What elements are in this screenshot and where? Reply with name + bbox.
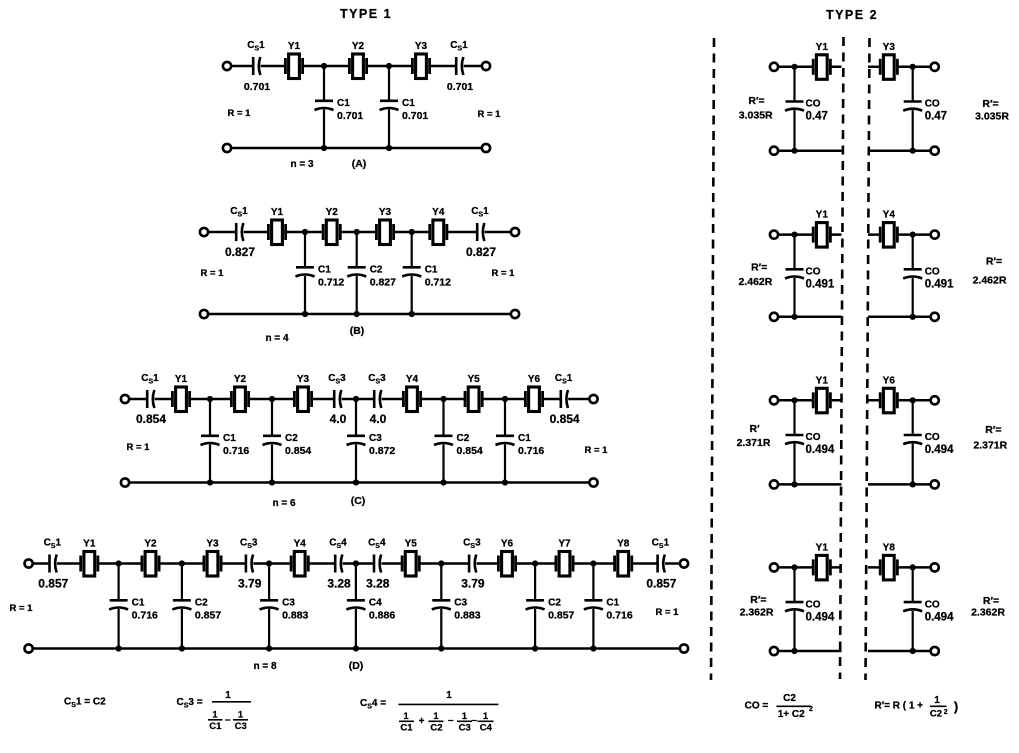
- capacitor CS1 series (B): [230, 206, 248, 241]
- capacitor C1 shunt at node 5 (C): [496, 436, 515, 445]
- svg-text:CO: CO: [806, 99, 821, 110]
- svg-text:0.827: 0.827: [370, 277, 396, 289]
- svg-text:1: 1: [403, 711, 409, 722]
- junction top right half (type2 row2): [910, 232, 916, 238]
- wire shunt branch upper node 3 (B): [411, 232, 413, 267]
- svg-text:+: +: [419, 716, 425, 727]
- wire bottom rail right half (type2 row1): [868, 149, 931, 152]
- wire top left half (type2 row1): [778, 66, 841, 69]
- capacitor CS3 series (D): [240, 538, 258, 573]
- svg-text:1: 1: [433, 711, 439, 722]
- svg-text:Y2: Y2: [234, 374, 247, 385]
- svg-text:1: 1: [225, 690, 231, 701]
- junction bottom left half (type2 row4): [791, 648, 797, 654]
- wire bottom rail (D): [33, 647, 680, 650]
- input terminal top left (A): [223, 62, 231, 70]
- svg-text:Y3: Y3: [379, 207, 392, 218]
- svg-text:2.362R: 2.362R: [971, 607, 1005, 619]
- input terminal top left (C): [121, 395, 129, 403]
- svg-text:0.857: 0.857: [646, 577, 676, 591]
- svg-text:3.035R: 3.035R: [739, 110, 773, 122]
- svg-text:CS4: CS4: [329, 538, 347, 551]
- wire bottom rail left half (type2 row3): [778, 483, 841, 486]
- svg-text:Y8: Y8: [617, 539, 630, 550]
- svg-text:Y2: Y2: [352, 41, 365, 52]
- svg-text:C2: C2: [370, 265, 383, 276]
- junction bottom left half (type2 row3): [791, 481, 797, 487]
- svg-text:C3: C3: [369, 433, 382, 444]
- svg-text:Y3: Y3: [297, 374, 310, 385]
- svg-text:R′=: R′=: [982, 98, 998, 110]
- svg-text:R = 1: R = 1: [127, 442, 151, 453]
- crystal Y1 left half (type2 row4): [813, 542, 830, 580]
- capacitor C0 shunt left half (type2 row1): [785, 102, 804, 111]
- node 1 junction bottom (C): [207, 479, 213, 485]
- svg-text:C4: C4: [480, 722, 493, 733]
- svg-text:CO: CO: [925, 99, 940, 110]
- wire top right half (type2 row4): [868, 566, 931, 569]
- crystal Y6 right half (type2 row3): [880, 375, 897, 413]
- junction bottom right half (type2 row4): [910, 648, 916, 654]
- capacitor C3 shunt at node 5 (D): [432, 600, 451, 609]
- svg-text:C1: C1: [223, 433, 236, 444]
- wire bottom rail (C): [129, 481, 589, 484]
- svg-text:Y1: Y1: [288, 41, 301, 52]
- svg-text:0.872: 0.872: [369, 445, 395, 457]
- svg-text:C2: C2: [430, 722, 442, 733]
- wire shunt branch upper node 6 (D): [534, 564, 536, 601]
- terminal bottom left (type2 row2): [770, 313, 778, 321]
- svg-text:C3: C3: [235, 721, 247, 732]
- svg-text:R = 1: R = 1: [585, 445, 609, 456]
- svg-text:4.0: 4.0: [330, 412, 347, 426]
- svg-text:Y5: Y5: [467, 374, 480, 385]
- node 5 junction top (D): [438, 560, 444, 566]
- dashed divider line left: [711, 38, 714, 680]
- crystal Y2 (C): [231, 374, 248, 412]
- wire shunt branch lower node 7 (D): [592, 609, 594, 649]
- svg-text:Y2: Y2: [144, 539, 157, 550]
- svg-text:Y4: Y4: [406, 374, 419, 385]
- crystal Y3 (B): [376, 207, 393, 245]
- wire shunt upper right half (type2 row1): [912, 67, 914, 102]
- terminal top left (type2 row2): [770, 231, 778, 239]
- wire shunt upper left half (type2 row1): [793, 67, 795, 102]
- svg-text:CO: CO: [925, 432, 940, 443]
- node 6 junction bottom (D): [532, 645, 538, 651]
- formula CS4 = 1/(1/C1 + 1/C2 - 1/C3 - 1/C4): [360, 690, 498, 733]
- wire shunt lower left half (type2 row3): [793, 444, 795, 485]
- svg-text:3.28: 3.28: [327, 577, 351, 591]
- wire top rail (A): [231, 65, 482, 68]
- junction bottom right half (type2 row2): [910, 314, 916, 320]
- wire top left half (type2 row4): [778, 566, 841, 569]
- svg-text:CO: CO: [925, 267, 940, 278]
- svg-text:Y3: Y3: [206, 539, 219, 550]
- svg-text:Y4: Y4: [432, 207, 445, 218]
- node 1 junction top (B): [302, 229, 308, 235]
- svg-text:R = 1: R = 1: [478, 109, 502, 120]
- output terminal bottom right (B): [511, 310, 519, 318]
- svg-text:Y1: Y1: [83, 539, 96, 550]
- svg-text:CO: CO: [925, 599, 940, 610]
- crystal Y1 left half (type2 row3): [813, 375, 830, 413]
- svg-text:C1: C1: [606, 598, 619, 609]
- wire bottom rail right half (type2 row3): [868, 483, 931, 486]
- junction bottom left half (type2 row1): [791, 148, 797, 154]
- node 3 junction top (B): [409, 229, 415, 235]
- svg-text:0.886: 0.886: [369, 610, 395, 622]
- svg-text:Y6: Y6: [501, 539, 514, 550]
- svg-text:0.854: 0.854: [136, 412, 166, 426]
- output terminal top right (A): [482, 62, 490, 70]
- crystal Y7 (D): [556, 539, 573, 577]
- capacitor C2 shunt at node 2 (B): [347, 267, 366, 276]
- capacitor CS1 series (D): [652, 538, 670, 573]
- svg-text:C1: C1: [132, 598, 145, 609]
- svg-text:(D): (D): [349, 660, 364, 672]
- junction top right half (type2 row1): [910, 64, 916, 70]
- capacitor CS1 series (B): [471, 206, 489, 241]
- svg-text:CS4 =: CS4 =: [360, 698, 386, 711]
- wire bottom rail left half (type2 row4): [778, 650, 841, 653]
- svg-text:CS3 =: CS3 =: [177, 697, 203, 710]
- wire shunt upper left half (type2 row3): [793, 400, 795, 435]
- capacitor C0 shunt right half (type2 row4): [903, 602, 922, 611]
- svg-text:CS3: CS3: [368, 373, 386, 386]
- node 2 junction bottom (D): [179, 645, 185, 651]
- svg-text:0.827: 0.827: [225, 245, 255, 259]
- node 1 junction bottom (D): [116, 645, 122, 651]
- svg-text:Y5: Y5: [405, 539, 418, 550]
- svg-text:(A): (A): [352, 158, 367, 170]
- svg-text:C2: C2: [285, 433, 298, 444]
- svg-text:CS1: CS1: [141, 373, 159, 386]
- wire shunt branch upper node 2 (C): [271, 399, 273, 436]
- wire shunt branch lower node 3 (B): [411, 276, 413, 314]
- svg-text:TYPE 1: TYPE 1: [340, 7, 392, 21]
- capacitor CS3 series (D): [463, 538, 481, 573]
- crystal Y3 (C): [294, 374, 311, 412]
- node 3 junction bottom (D): [266, 645, 272, 651]
- svg-text:C2: C2: [195, 598, 208, 609]
- wire bottom rail right half (type2 row4): [868, 650, 931, 653]
- svg-text:2.462R: 2.462R: [738, 276, 772, 288]
- dashed divider line middle: [840, 37, 844, 679]
- capacitor C0 shunt right half (type2 row2): [903, 269, 922, 278]
- svg-text:2.371R: 2.371R: [737, 437, 771, 449]
- svg-text:3.79: 3.79: [461, 577, 485, 591]
- formula R' = R(1 + 1/C2^2): [875, 695, 959, 720]
- svg-text:C4: C4: [369, 598, 382, 609]
- capacitor C0 shunt left half (type2 row3): [785, 435, 804, 444]
- input terminal bottom left (D): [25, 644, 33, 652]
- svg-text:0.47: 0.47: [925, 111, 947, 123]
- svg-text:R′=: R′=: [751, 262, 767, 274]
- svg-text:0.716: 0.716: [518, 445, 544, 457]
- svg-text:C2: C2: [783, 693, 796, 704]
- wire bottom rail (A): [231, 147, 482, 150]
- capacitor C2 shunt at node 2 (D): [172, 600, 191, 609]
- node 2 junction top (B): [354, 229, 360, 235]
- crystal Y2 (D): [142, 539, 159, 577]
- crystal Y3 right half (type2 row1): [880, 42, 897, 80]
- capacitor C1 shunt at node 3 (B): [402, 267, 421, 276]
- svg-text:C1: C1: [402, 98, 415, 109]
- wire top rail (D): [33, 562, 680, 565]
- svg-text:R′= R ( 1 +: R′= R ( 1 +: [875, 701, 924, 712]
- wire shunt lower left half (type2 row1): [793, 110, 795, 151]
- svg-text:CS3: CS3: [463, 538, 481, 551]
- crystal Y1 (A): [285, 41, 302, 79]
- svg-text:CS1: CS1: [247, 40, 265, 53]
- svg-text:): ): [954, 699, 958, 714]
- svg-text:R′=: R′=: [986, 256, 1002, 268]
- wire shunt branch lower node 1 (B): [304, 276, 306, 314]
- svg-text:0.701: 0.701: [447, 81, 473, 93]
- output terminal bottom right (A): [482, 144, 490, 152]
- junction top left half (type2 row4): [791, 564, 797, 570]
- svg-text:R′=: R′=: [983, 595, 999, 607]
- svg-text:CS3: CS3: [240, 538, 258, 551]
- wire shunt lower right half (type2 row1): [912, 110, 914, 151]
- svg-text:0.854: 0.854: [550, 412, 580, 426]
- svg-text:R′: R′: [750, 423, 761, 435]
- svg-text:CO =: CO =: [745, 701, 769, 712]
- capacitor C2 shunt at node 2 (C): [263, 436, 282, 445]
- wire shunt branch upper node 2 (B): [356, 232, 358, 267]
- svg-text:CS1: CS1: [471, 206, 489, 219]
- svg-text:C1: C1: [425, 265, 438, 276]
- svg-text:CS1: CS1: [652, 538, 670, 551]
- wire shunt branch lower node 3 (D): [268, 609, 270, 649]
- wire shunt branch lower node 4 (C): [442, 444, 444, 482]
- terminal top left (type2 row3): [770, 396, 778, 404]
- input terminal bottom left (B): [200, 310, 208, 318]
- terminal bottom left (type2 row1): [770, 147, 778, 155]
- svg-text:1+ C2: 1+ C2: [778, 709, 805, 720]
- crystal Y2 (A): [349, 41, 366, 79]
- svg-text:Y1: Y1: [816, 375, 829, 386]
- node 2 junction top (D): [179, 560, 185, 566]
- svg-text:0.716: 0.716: [606, 610, 632, 622]
- node 3 junction top (C): [353, 396, 359, 402]
- svg-text:Y1: Y1: [816, 42, 829, 53]
- wire shunt lower left half (type2 row4): [793, 611, 795, 651]
- svg-text:0.494: 0.494: [806, 611, 835, 623]
- crystal Y3 (D): [204, 539, 221, 577]
- svg-text:CS4: CS4: [368, 538, 386, 551]
- node 3 junction bottom (B): [409, 311, 415, 317]
- output terminal bottom right (C): [589, 478, 597, 486]
- capacitor CS4 series (D): [329, 538, 347, 573]
- wire shunt branch lower node 4 (D): [355, 609, 357, 649]
- svg-text:Y4: Y4: [883, 210, 896, 221]
- svg-text:C2: C2: [457, 433, 470, 444]
- crystal Y4 (B): [430, 207, 447, 245]
- crystal Y4 (C): [403, 374, 420, 412]
- svg-text:Y8: Y8: [883, 542, 896, 553]
- wire shunt branch lower node 6 (D): [534, 609, 536, 649]
- crystal Y6 (C): [525, 374, 542, 412]
- svg-text:CS1: CS1: [555, 373, 573, 386]
- input terminal top left (D): [25, 559, 33, 567]
- crystal Y5 (C): [465, 374, 482, 412]
- wire shunt lower right half (type2 row2): [912, 278, 914, 317]
- svg-text:Y3: Y3: [415, 41, 428, 52]
- crystal Y8 right half (type2 row4): [880, 542, 897, 580]
- capacitor C1 shunt at node 1 (B): [296, 267, 315, 276]
- output terminal top right (C): [589, 395, 597, 403]
- svg-text:0.857: 0.857: [548, 610, 574, 622]
- node 1 junction top (D): [116, 560, 122, 566]
- formula CS3 = 1/(1/C1 - 1/C3): [177, 690, 252, 732]
- wire shunt branch lower node 5 (D): [440, 609, 442, 649]
- svg-text:CS1: CS1: [230, 206, 248, 219]
- capacitor C0 shunt left half (type2 row2): [785, 269, 804, 278]
- wire shunt upper right half (type2 row4): [912, 567, 914, 602]
- wire shunt upper left half (type2 row2): [793, 235, 795, 270]
- crystal Y1 left half (type2 row2): [813, 210, 830, 248]
- svg-text:1: 1: [446, 690, 452, 701]
- capacitor C2 shunt at node 6 (D): [526, 600, 545, 609]
- svg-text:(C): (C): [351, 495, 366, 507]
- svg-text:1: 1: [238, 710, 244, 721]
- terminal bottom left (type2 row3): [770, 480, 778, 488]
- node 1 junction top (C): [207, 396, 213, 402]
- crystal Y6 (D): [498, 539, 515, 577]
- wire shunt branch lower node 1 (C): [209, 444, 211, 482]
- svg-text:0.827: 0.827: [466, 245, 496, 259]
- svg-text:1: 1: [483, 711, 489, 722]
- wire bottom rail left half (type2 row1): [778, 149, 841, 152]
- terminal top right (type2 row3): [931, 396, 939, 404]
- svg-text:CS1: CS1: [450, 40, 468, 53]
- junction top left half (type2 row2): [791, 232, 797, 238]
- wire shunt branch lower node 2 (A): [388, 109, 390, 148]
- wire top right half (type2 row2): [868, 233, 931, 236]
- svg-text:(B): (B): [350, 325, 365, 337]
- svg-text:C1: C1: [209, 721, 222, 732]
- svg-text:R = 1: R = 1: [201, 268, 225, 279]
- svg-text:0.494: 0.494: [925, 444, 954, 456]
- svg-text:0.494: 0.494: [806, 444, 835, 456]
- node 1 junction bottom (A): [321, 145, 327, 151]
- capacitor CS1 series (A): [247, 40, 265, 75]
- capacitor C1 shunt at node 7 (D): [584, 600, 603, 609]
- svg-text:Y2: Y2: [326, 207, 339, 218]
- svg-text:–: –: [448, 715, 454, 726]
- svg-text:2.362R: 2.362R: [740, 607, 774, 619]
- node 5 junction bottom (D): [438, 645, 444, 651]
- wire shunt branch lower node 2 (C): [271, 444, 273, 482]
- svg-text:C1: C1: [318, 265, 331, 276]
- svg-text:Y6: Y6: [528, 374, 541, 385]
- wire shunt branch lower node 1 (D): [117, 609, 119, 649]
- svg-text:CS3: CS3: [328, 373, 346, 386]
- svg-text:2: 2: [809, 706, 813, 713]
- wire shunt branch upper node 1 (B): [304, 232, 306, 267]
- svg-text:1: 1: [462, 711, 468, 722]
- svg-text:CO: CO: [806, 432, 821, 443]
- svg-text:2.462R: 2.462R: [973, 274, 1007, 286]
- wire shunt branch upper node 4 (D): [355, 564, 357, 601]
- svg-text:4.0: 4.0: [370, 412, 387, 426]
- svg-text:0.701: 0.701: [244, 81, 270, 93]
- node 3 junction top (D): [266, 560, 272, 566]
- wire shunt branch upper node 2 (A): [388, 66, 390, 101]
- wire shunt branch upper node 1 (A): [323, 66, 325, 101]
- svg-text:C2: C2: [930, 709, 942, 720]
- svg-text:R = 1: R = 1: [228, 108, 252, 119]
- svg-text:C3: C3: [459, 722, 471, 733]
- svg-text:0.491: 0.491: [806, 279, 835, 291]
- capacitor C3 shunt at node 3 (D): [260, 600, 279, 609]
- svg-text:TYPE 2: TYPE 2: [826, 8, 878, 22]
- crystal Y5 (D): [402, 539, 419, 577]
- svg-text:Y1: Y1: [816, 210, 829, 221]
- wire shunt branch upper node 5 (D): [440, 564, 442, 601]
- wire bottom rail right half (type2 row2): [868, 316, 931, 319]
- node 4 junction top (C): [440, 396, 446, 402]
- node 2 junction bottom (A): [386, 145, 392, 151]
- svg-text:Y3: Y3: [883, 42, 896, 53]
- svg-text:C1: C1: [518, 433, 531, 444]
- crystal Y4 right half (type2 row2): [880, 210, 897, 248]
- wire top right half (type2 row3): [868, 399, 931, 402]
- terminal bottom right (type2 row1): [931, 147, 939, 155]
- svg-text:Y4: Y4: [294, 539, 307, 550]
- terminal top left (type2 row4): [770, 563, 778, 571]
- crystal Y1 (D): [81, 539, 98, 577]
- wire shunt branch upper node 1 (D): [117, 564, 119, 601]
- node 1 junction top (A): [321, 63, 327, 69]
- wire top rail (B): [208, 231, 511, 234]
- svg-text:R′=: R′=: [750, 594, 766, 606]
- capacitor C0 shunt left half (type2 row4): [785, 602, 804, 611]
- svg-text:n = 8: n = 8: [253, 661, 277, 672]
- svg-text:0.854: 0.854: [457, 445, 483, 457]
- terminal bottom right (type2 row2): [931, 313, 939, 321]
- wire shunt upper right half (type2 row2): [912, 235, 914, 270]
- crystal Y2 (B): [323, 207, 340, 245]
- svg-text:n = 3: n = 3: [290, 159, 314, 170]
- crystal Y4 (D): [291, 539, 308, 577]
- capacitor C1 shunt at node 1 (D): [109, 600, 128, 609]
- wire top left half (type2 row3): [778, 399, 841, 402]
- node 7 junction top (D): [590, 560, 596, 566]
- wire shunt branch upper node 4 (C): [442, 399, 444, 436]
- node 4 junction top (D): [353, 560, 359, 566]
- svg-text:0.494: 0.494: [925, 611, 954, 623]
- node 2 junction bottom (C): [269, 479, 275, 485]
- svg-text:1: 1: [212, 710, 218, 721]
- capacitor C1 shunt at node 2 (A): [380, 101, 399, 110]
- node 5 junction top (C): [502, 396, 508, 402]
- svg-text:C3: C3: [454, 598, 467, 609]
- wire shunt branch upper node 3 (D): [268, 564, 270, 601]
- crystal Y3 (A): [412, 41, 429, 79]
- crystal Y8 (D): [615, 539, 632, 577]
- node 1 junction bottom (B): [302, 311, 308, 317]
- svg-text:CO: CO: [806, 599, 821, 610]
- svg-text:0.857: 0.857: [38, 577, 68, 591]
- junction bottom right half (type2 row1): [910, 148, 916, 154]
- svg-text:0.491: 0.491: [925, 279, 954, 291]
- junction top left half (type2 row1): [791, 64, 797, 70]
- input terminal bottom left (C): [121, 478, 129, 486]
- capacitor CS1 series (C): [141, 373, 159, 408]
